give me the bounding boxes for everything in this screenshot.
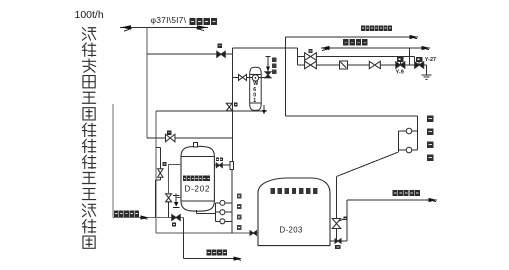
wire steam upper y56.5 <box>298 56 415 58</box>
vessel D-202 <box>181 146 214 211</box>
svg-text:Y-9: Y-9 <box>396 70 404 76</box>
valve V7 on y111 <box>226 103 232 111</box>
wire x156 <box>155 111 157 233</box>
label below CV2 <box>335 245 341 249</box>
wire x113 grey <box>112 104 114 218</box>
label 去排污沟 <box>207 250 212 256</box>
label 至化学补给水 <box>393 190 398 196</box>
svg-text:1: 1 <box>253 98 256 104</box>
level gauge box <box>230 161 233 169</box>
wire x183.6 drop <box>183 218 185 259</box>
label above V10 <box>167 131 171 135</box>
pump P3 <box>216 220 220 222</box>
wire y77.5 to cylinder <box>232 77 252 79</box>
vertical title text 凝结水闭式回收系统工艺流程图 <box>83 28 96 249</box>
blowdown line <box>184 258 240 260</box>
valve V1 on y54 <box>217 51 226 57</box>
label 低压蒸汽 <box>343 39 348 45</box>
valve V2 upper <box>305 53 317 61</box>
check valve CV1 <box>216 163 222 168</box>
solenoid valve Y-27 <box>416 57 422 62</box>
valve V10 <box>165 134 175 142</box>
svg-text:φ37I\5I7\: φ37I\5I7\ <box>151 15 187 25</box>
wire main riser x232 <box>231 48 233 161</box>
line to deaerator <box>286 36 419 38</box>
solenoid valve Y-9 <box>397 57 403 62</box>
svg-text:Y-27: Y-27 <box>425 57 436 63</box>
label 低压凝结水 <box>114 211 119 217</box>
check valve CV2 <box>335 239 341 244</box>
wire drop x336.5 <box>336 177 338 242</box>
valve V11 <box>158 169 164 178</box>
wire x231.8 lower <box>231 170 233 233</box>
wire steam lower y65 <box>298 64 427 66</box>
drain/ground symbol <box>422 74 432 76</box>
valve V5 with handle <box>332 219 341 229</box>
pump P1 <box>216 202 220 204</box>
valve V6 <box>172 215 181 221</box>
strainer/orifice box <box>340 61 348 69</box>
pipe label line (top, double arrow) <box>120 26 208 28</box>
label below V6 <box>172 223 176 227</box>
wire manifold drop x297.5 <box>297 48 299 65</box>
wire y138 <box>147 137 232 139</box>
label above V1 <box>218 44 222 48</box>
sampler coolers bracket <box>398 131 400 152</box>
wire riser x347 <box>346 200 348 241</box>
cylinder drain arrow <box>263 105 265 112</box>
tank inlet wire y233 <box>156 232 258 234</box>
valve V12 <box>166 194 172 202</box>
valve V4 <box>369 61 380 68</box>
drain funnel symbol <box>173 194 179 196</box>
wire x409.5 drop <box>409 48 411 65</box>
vessel W-601 <box>250 67 262 110</box>
vessel D-202 top nub <box>193 143 197 147</box>
label above V2 <box>309 49 313 53</box>
label 去除氧器给水箱 <box>361 26 365 32</box>
wire riser x147 <box>146 27 148 138</box>
label V11 <box>162 162 166 166</box>
valve V3 lower <box>305 61 317 69</box>
wire header y54 <box>147 53 232 55</box>
vessel D-202 label row <box>183 176 187 182</box>
condensate inlet line 低压凝结水 <box>113 217 184 219</box>
wire y111 under cylinder <box>156 110 267 112</box>
vent line with T <box>267 57 269 78</box>
wire drop to drain <box>426 65 428 75</box>
wire x161 chain <box>159 147 161 168</box>
tank outlet y241 <box>330 240 347 242</box>
wire y165 <box>214 164 230 166</box>
wire riser x285.5 <box>285 37 287 116</box>
tank D-203 <box>258 178 330 246</box>
drain leg from D-202 left <box>169 163 181 165</box>
label 排空气 (vertical) <box>272 58 276 63</box>
valve V8 <box>239 74 247 80</box>
steam inlet line 低压蒸汽 <box>321 47 430 49</box>
wire y48 to steam manifold <box>232 47 297 49</box>
pump P2 <box>216 211 220 213</box>
label pumps (vertical) <box>237 194 242 199</box>
vent valve V9 <box>265 72 271 78</box>
wire y116.5 long <box>286 115 418 117</box>
pump suction bracket <box>215 203 217 221</box>
tank inlet valve <box>250 231 256 236</box>
wire drop x417.5 <box>417 116 419 150</box>
stub y147.3 <box>156 146 160 148</box>
diagonal wire to tank <box>337 152 399 177</box>
wire chain bottom <box>168 202 170 218</box>
tank D-203 label row <box>271 188 275 194</box>
svg-text:100t/h: 100t/h <box>75 9 104 21</box>
svg-text:D-202: D-202 <box>185 184 211 193</box>
svg-text:D-203: D-203 <box>280 226 303 235</box>
gauge circle on W-601 <box>252 75 258 81</box>
line to chemical water <box>347 199 437 201</box>
label 去软水箱 (vertical) <box>427 116 434 123</box>
D-202 drain to pumps <box>196 210 198 213</box>
